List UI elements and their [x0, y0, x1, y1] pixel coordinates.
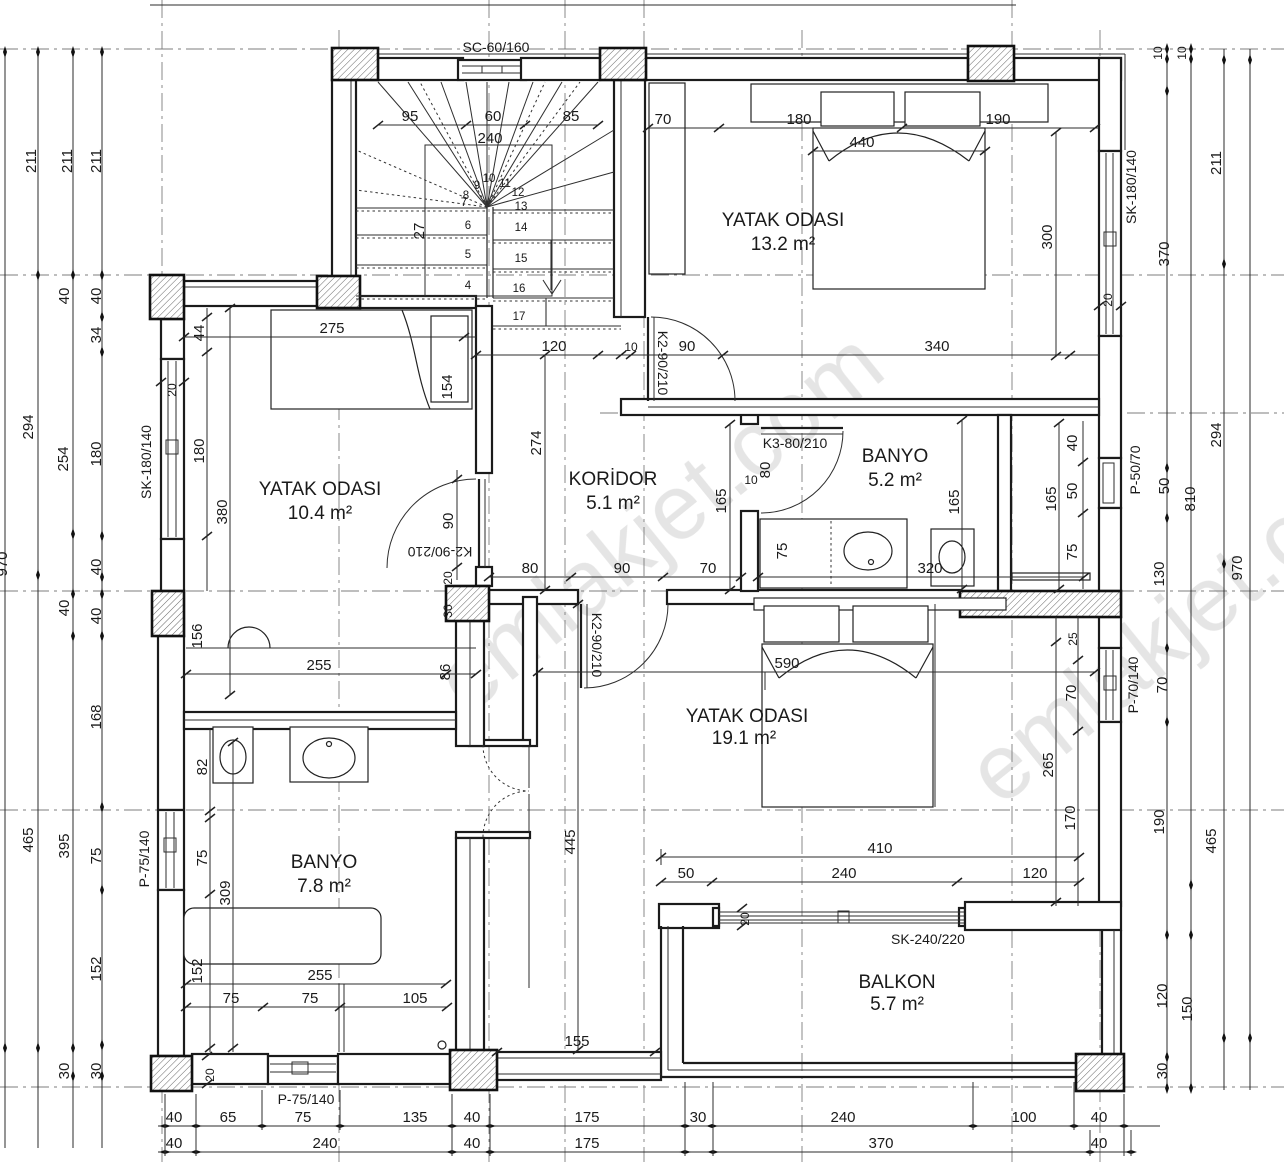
svg-text:15: 15 — [515, 253, 528, 265]
svg-text:40: 40 — [166, 1109, 183, 1126]
stairs dotted guide lines — [356, 82, 621, 329]
bathroom 7.8 toilet — [213, 727, 253, 783]
svg-text:9: 9 — [474, 180, 480, 192]
svg-text:K2-90/210: K2-90/210 — [589, 613, 605, 678]
svg-text:K2-90/210: K2-90/210 — [407, 544, 472, 560]
right dimension chain lines — [1165, 43, 1252, 1094]
column C1 top left of stairs — [332, 48, 378, 80]
bathroom 5.2 dimension 165 left — [957, 416, 967, 593]
bottom wall dim 20 — [202, 1052, 217, 1088]
svg-text:80: 80 — [757, 462, 774, 479]
bedroom 19.1 dimension 445 — [529, 600, 583, 1054]
label P-70/140 right — [1125, 656, 1141, 713]
balcony window dim 20 — [737, 904, 752, 930]
svg-text:44: 44 — [191, 325, 208, 342]
hall folding door dotted arcs — [483, 745, 529, 837]
svg-text:254: 254 — [55, 446, 72, 471]
svg-text:75: 75 — [1064, 544, 1081, 561]
door K2-90/210 koridor to bedroom 19.1 — [581, 604, 668, 688]
svg-text:BALKON: BALKON — [858, 972, 935, 993]
svg-text:465: 465 — [1203, 828, 1220, 853]
left wall bathroom 7.8 lower piece — [158, 890, 184, 1056]
svg-text:155: 155 — [564, 1033, 589, 1050]
svg-text:75: 75 — [88, 848, 105, 865]
svg-text:120: 120 — [1022, 865, 1047, 882]
svg-text:320: 320 — [917, 560, 942, 577]
bathroom 7.8 dimension 75 75 105 — [181, 1003, 452, 1011]
bottom dimension chain row 2 labels — [166, 1135, 1108, 1152]
bedroom 19.1 dimension 50 240 120 — [656, 878, 1084, 886]
room label bedroom 19.1 — [686, 706, 808, 749]
room label balcony — [858, 972, 935, 1015]
svg-text:90: 90 — [440, 513, 457, 530]
svg-text:170: 170 — [1062, 805, 1079, 830]
svg-text:30: 30 — [1154, 1063, 1171, 1080]
svg-text:180: 180 — [191, 438, 208, 463]
svg-text:120: 120 — [541, 338, 566, 355]
bathroom 7.8 bathtub — [184, 908, 381, 964]
top wall outer plaster line — [378, 54, 1125, 150]
window P-50/70 right — [1099, 458, 1121, 508]
label P-50/70 right — [1127, 445, 1143, 494]
bottom dimension chain row 1 labels — [166, 1109, 1108, 1126]
watermark emlakjet.com diagonal — [416, 311, 1284, 823]
svg-text:211: 211 — [23, 149, 40, 173]
stair block right wall / bedroom west wall — [614, 80, 645, 317]
svg-text:70: 70 — [1063, 685, 1080, 702]
svg-text:165: 165 — [713, 488, 730, 513]
svg-text:180: 180 — [786, 111, 811, 128]
svg-text:410: 410 — [867, 840, 892, 857]
svg-text:10: 10 — [483, 173, 496, 185]
bedroom 13.2 wardrobe west — [649, 83, 685, 274]
svg-text:30: 30 — [56, 1063, 73, 1080]
svg-text:100: 100 — [1011, 1109, 1036, 1126]
svg-text:211: 211 — [59, 149, 76, 173]
bedroom 19.1 dimension 410 — [656, 849, 1084, 865]
svg-text:165: 165 — [946, 489, 963, 514]
top wall segment right of SC window — [521, 58, 600, 80]
svg-text:380: 380 — [214, 499, 231, 524]
label P-75/140 bottom — [278, 1091, 335, 1107]
svg-text:90: 90 — [679, 338, 696, 355]
koridor south wall west piece — [489, 590, 578, 604]
svg-text:294: 294 — [1208, 422, 1225, 447]
svg-text:168: 168 — [88, 704, 105, 729]
svg-text:40: 40 — [166, 1135, 183, 1152]
bathroom 5.2 dimension 75 toilet — [774, 543, 791, 560]
bedroom 10.4 bottom dimension 255 86 — [181, 670, 481, 678]
bedroom 10.4 dimensions 44 180 — [202, 308, 212, 591]
svg-text:240: 240 — [830, 1109, 855, 1126]
svg-text:13: 13 — [515, 201, 528, 213]
bedroom 10.4 dimension 275 — [179, 333, 476, 341]
svg-text:370: 370 — [868, 1135, 893, 1152]
bathroom 7.8 shower partition — [339, 984, 344, 1052]
svg-text:255: 255 — [306, 657, 331, 674]
svg-text:40: 40 — [88, 608, 105, 625]
bedroom 13.2 dimension 300 — [1051, 128, 1061, 360]
svg-text:152: 152 — [88, 956, 105, 981]
svg-text:190: 190 — [1151, 809, 1168, 834]
svg-text:86: 86 — [437, 664, 454, 681]
label P-75/140 left — [136, 830, 152, 887]
svg-text:65: 65 — [220, 1109, 237, 1126]
bedroom 10.4 single bed — [271, 310, 472, 409]
room label bedroom 13.2 — [722, 210, 844, 255]
closet dimensions 40 50 75 — [1078, 421, 1088, 589]
svg-text:265: 265 — [1040, 752, 1057, 777]
bedroom 13.2 south wall — [621, 399, 1099, 415]
window SK-180/140 right — [1099, 151, 1121, 336]
room label bathroom 5.2 — [862, 446, 929, 491]
koridor bottom dimension 80 90 70 — [484, 573, 746, 581]
right wall between windows — [1099, 336, 1121, 458]
koridor south wall east piece — [667, 590, 960, 610]
svg-text:7.8 m²: 7.8 m² — [297, 876, 351, 897]
bathroom 5.2 toilet — [931, 529, 974, 586]
koridor west wall upper piece — [476, 306, 492, 473]
bedroom 19.1 dimension 590 — [533, 668, 1100, 676]
svg-text:240: 240 — [831, 865, 856, 882]
svg-text:465: 465 — [20, 827, 37, 852]
svg-text:40: 40 — [464, 1109, 481, 1126]
svg-text:75: 75 — [194, 850, 211, 867]
stairs dimension 27 — [411, 223, 428, 240]
bathroom 5.2 dimension 320 — [753, 573, 1089, 581]
bathroom 5.2 west wall lower piece — [741, 511, 758, 591]
svg-text:19.1 m²: 19.1 m² — [712, 728, 776, 749]
svg-text:95: 95 — [402, 108, 419, 125]
right wall piece below top corner — [1099, 58, 1121, 151]
svg-text:20: 20 — [203, 1068, 217, 1082]
svg-text:175: 175 — [574, 1109, 599, 1126]
bottom wall middle piece — [338, 1054, 450, 1084]
svg-text:445: 445 — [562, 829, 579, 854]
svg-text:K3-80/210: K3-80/210 — [763, 435, 828, 451]
bottom wall left piece — [192, 1054, 268, 1084]
door K3-80/210 bathroom 5.2 — [744, 428, 843, 513]
svg-text:10.4 m²: 10.4 m² — [288, 503, 352, 524]
svg-text:6: 6 — [465, 220, 471, 232]
svg-text:50: 50 — [1156, 478, 1173, 495]
svg-text:175: 175 — [574, 1135, 599, 1152]
label SK-180/140 left — [138, 425, 154, 499]
right dimension chain labels — [1151, 46, 1246, 1079]
column C7 center — [446, 586, 489, 621]
svg-text:211: 211 — [1208, 151, 1225, 175]
column C11 balcony bottom right — [1076, 1054, 1124, 1091]
svg-text:340: 340 — [924, 338, 949, 355]
bedroom 19.1 headboard — [754, 598, 1006, 610]
room label bedroom 10.4 — [259, 479, 381, 524]
svg-text:300: 300 — [1039, 224, 1056, 249]
closet dimension 165 right — [1054, 419, 1064, 593]
svg-text:5: 5 — [465, 249, 471, 261]
svg-text:40: 40 — [1091, 1109, 1108, 1126]
koridor dimension 274 — [540, 351, 550, 594]
left wall bathroom 7.8 upper piece — [158, 636, 184, 810]
svg-text:BANYO: BANYO — [862, 446, 929, 467]
bathroom 7.8 dimensions 82 75 152 — [205, 729, 215, 1052]
bedroom 19.1 double bed — [762, 606, 933, 807]
svg-text:K2-90/210: K2-90/210 — [655, 331, 671, 396]
column C4 left upper — [150, 275, 184, 319]
stairs center divider — [487, 207, 493, 298]
svg-text:40: 40 — [1064, 435, 1081, 452]
bottom dimension chain row 1 — [158, 1124, 1160, 1128]
svg-text:16: 16 — [513, 283, 526, 295]
svg-text:40: 40 — [88, 559, 105, 576]
svg-text:YATAK ODASI: YATAK ODASI — [686, 706, 808, 727]
svg-text:50: 50 — [678, 865, 695, 882]
stair block left wall — [332, 80, 356, 276]
svg-text:82: 82 — [194, 759, 211, 776]
top wall segment between columns C2 and C3 — [646, 58, 968, 80]
dimension 155 — [492, 1048, 660, 1056]
door stop circle — [438, 1041, 446, 1049]
svg-text:SK-180/140: SK-180/140 — [1123, 150, 1139, 224]
svg-text:P-75/140: P-75/140 — [278, 1091, 335, 1107]
balcony parapet — [661, 926, 1121, 1077]
svg-text:40: 40 — [88, 288, 105, 305]
bedroom 13.2 bed dimension 440 — [808, 147, 990, 155]
bathroom 7.8 dimension 309 — [228, 738, 238, 1052]
koridor dimension 165 east — [725, 420, 735, 594]
label SC-60/160 — [463, 39, 530, 55]
column C6 left middle — [152, 591, 184, 636]
left wall piece below column C4 — [161, 319, 184, 359]
svg-text:5.7 m²: 5.7 m² — [870, 994, 924, 1015]
svg-text:75: 75 — [774, 543, 791, 560]
bottom extension lines — [165, 1082, 1131, 1156]
svg-text:KORİDOR: KORİDOR — [569, 469, 658, 490]
svg-text:240: 240 — [477, 130, 502, 147]
door K2-90/210 bedroom 10.4 — [387, 470, 485, 618]
bedroom 19.1 south wall left piece — [659, 904, 719, 928]
svg-text:810: 810 — [1182, 486, 1199, 511]
top wall segment left of SC window — [378, 58, 463, 80]
bottom wall right of column C10 — [497, 1052, 661, 1080]
bottom dimension chain row 2 — [158, 1150, 1137, 1154]
bathroom 7.8 dimension 255 — [181, 980, 451, 988]
svg-text:11: 11 — [499, 178, 511, 190]
window SK-180/140 left — [161, 359, 184, 539]
window dim 20 right — [1094, 293, 1126, 310]
svg-text:5.2 m²: 5.2 m² — [868, 470, 922, 491]
svg-text:70: 70 — [1154, 677, 1171, 694]
svg-text:80: 80 — [522, 560, 539, 577]
bathroom 7.8 counter with sink — [290, 727, 368, 782]
wall below column C7 upper — [456, 621, 484, 746]
svg-text:135: 135 — [402, 1109, 427, 1126]
bedroom 10.4 dimension 380 — [225, 304, 235, 699]
hatched wall block right middle — [960, 591, 1121, 617]
svg-text:75: 75 — [223, 990, 240, 1007]
bathroom 5.2 west wall upper piece — [741, 413, 758, 424]
svg-text:60: 60 — [485, 108, 502, 125]
window P-75/140 left — [158, 810, 184, 890]
stairwell eye outline — [425, 145, 552, 296]
svg-text:30: 30 — [88, 1063, 105, 1080]
bedroom 10.4 bed dimension 154 — [439, 374, 456, 399]
svg-text:970: 970 — [1229, 555, 1246, 580]
svg-text:75: 75 — [295, 1109, 312, 1126]
svg-text:240: 240 — [312, 1135, 337, 1152]
wall below hall lower — [456, 838, 484, 1050]
svg-text:SK-180/140: SK-180/140 — [138, 425, 154, 499]
svg-text:10: 10 — [1175, 46, 1189, 60]
svg-text:255: 255 — [307, 967, 332, 984]
svg-text:370: 370 — [1156, 241, 1173, 266]
svg-text:5.1 m²: 5.1 m² — [586, 493, 640, 514]
top border dimension line — [150, 4, 1016, 6]
svg-text:211: 211 — [88, 149, 105, 173]
svg-text:70: 70 — [700, 560, 717, 577]
column C2 top middle — [600, 48, 646, 80]
left dimension chain labels — [0, 149, 105, 1079]
svg-text:85: 85 — [563, 108, 580, 125]
stairs tread numbers — [461, 173, 528, 323]
stairs dimension 240 — [477, 130, 502, 147]
svg-text:20: 20 — [441, 571, 455, 585]
svg-text:395: 395 — [56, 833, 73, 858]
bedroom 13.2 closet — [751, 84, 1048, 122]
window P-75/140 bottom — [268, 1056, 338, 1084]
right wall piece below hatched block — [1099, 617, 1121, 648]
svg-text:40: 40 — [464, 1135, 481, 1152]
svg-text:40: 40 — [1091, 1135, 1108, 1152]
svg-text:20: 20 — [1101, 293, 1115, 307]
svg-text:156: 156 — [189, 623, 206, 648]
svg-text:105: 105 — [402, 990, 427, 1007]
koridor and bedroom 13.2 dimension 120 10 90 340 — [471, 351, 1099, 359]
svg-text:10: 10 — [744, 473, 758, 487]
svg-text:40: 40 — [56, 600, 73, 617]
room label koridor — [569, 469, 658, 514]
svg-text:30: 30 — [690, 1109, 707, 1126]
svg-text:190: 190 — [985, 111, 1010, 128]
vertical axis grid lines — [162, 0, 1100, 1162]
svg-text:970: 970 — [0, 551, 11, 576]
svg-text:P-50/70: P-50/70 — [1127, 445, 1143, 494]
hall step line upper — [469, 740, 530, 788]
svg-text:180: 180 — [88, 441, 105, 466]
bedroom 19.1 dimensions 25 265 — [1051, 617, 1061, 906]
window SC-60/160 top — [458, 60, 526, 80]
bedroom 10.4 closet line with semicircle arc — [186, 627, 476, 648]
svg-text:14: 14 — [515, 222, 528, 234]
svg-text:BANYO: BANYO — [291, 852, 358, 873]
svg-text:17: 17 — [513, 311, 526, 323]
svg-text:4: 4 — [465, 280, 472, 292]
svg-text:90: 90 — [614, 560, 631, 577]
svg-text:P-70/140: P-70/140 — [1125, 656, 1141, 713]
svg-text:13.2 m²: 13.2 m² — [751, 234, 815, 255]
bedroom 19.1 dimensions 70 170 — [1073, 617, 1083, 906]
door K2-90/210 bedroom 13.2 — [648, 317, 735, 401]
column C9 bottom left — [151, 1056, 192, 1091]
svg-text:440: 440 — [849, 134, 874, 151]
bedroom 13.2 top dimension 70 180 190 — [643, 124, 1100, 132]
window SK-240/220 balcony sliding door — [713, 908, 965, 926]
svg-text:8: 8 — [463, 190, 469, 202]
svg-text:40: 40 — [56, 288, 73, 305]
room label bathroom 7.8 — [291, 852, 358, 897]
svg-text:130: 130 — [1151, 561, 1168, 586]
svg-text:10: 10 — [624, 340, 638, 354]
svg-text:34: 34 — [88, 327, 105, 344]
stairs exit arrow — [543, 240, 561, 326]
svg-text:275: 275 — [319, 320, 344, 337]
hall step line lower — [456, 794, 530, 838]
left wall piece below window — [161, 539, 184, 591]
bathroom 5.2 closet shelf — [1012, 573, 1090, 580]
svg-text:20: 20 — [165, 383, 179, 397]
svg-text:294: 294 — [20, 414, 37, 439]
svg-text:10: 10 — [1151, 46, 1165, 60]
svg-text:150: 150 — [1179, 996, 1196, 1021]
svg-text:27: 27 — [411, 223, 428, 240]
svg-text:590: 590 — [774, 655, 799, 672]
svg-text:152: 152 — [189, 958, 206, 983]
stairs treads right flight — [493, 210, 621, 326]
column C3 top right — [968, 46, 1014, 81]
bedroom 19.1 south wall right piece — [965, 902, 1121, 930]
svg-text:165: 165 — [1043, 486, 1060, 511]
stairs treads left flight — [356, 208, 487, 296]
koridor west wall lower piece — [476, 567, 492, 586]
svg-text:YATAK ODASI: YATAK ODASI — [722, 210, 844, 231]
left dimension chain lines — [3, 46, 104, 1148]
svg-text:274: 274 — [528, 430, 545, 455]
svg-text:120: 120 — [1154, 983, 1171, 1008]
svg-text:75: 75 — [302, 990, 319, 1007]
stairs winder fan lines — [378, 82, 614, 207]
svg-text:70: 70 — [655, 111, 672, 128]
bathroom 5.2 east closet wall — [998, 415, 1011, 591]
bathroom 5.2 counter with sink — [760, 519, 907, 588]
bathroom 7.8 north wall — [184, 712, 456, 729]
svg-text:50: 50 — [1064, 483, 1081, 500]
right wall piece above hatched block — [1099, 508, 1121, 591]
svg-text:YATAK ODASI: YATAK ODASI — [259, 479, 381, 500]
column C5 stair bottom left — [317, 276, 360, 308]
bedroom 10.4 north wall — [184, 281, 317, 306]
label SK-240/220 — [891, 931, 965, 947]
column C10 bottom center — [450, 1050, 497, 1090]
right wall piece bedroom 19.1 east — [1099, 722, 1121, 906]
svg-text:30: 30 — [441, 604, 455, 618]
bedroom 13.2 double bed — [813, 92, 985, 289]
svg-text:SC-60/160: SC-60/160 — [463, 39, 530, 55]
stairs dimension 95 60 85 — [373, 121, 603, 129]
label SK-180/140 right — [1123, 150, 1139, 224]
top wall segment right of column C3 — [1014, 58, 1121, 80]
svg-text:P-75/140: P-75/140 — [136, 830, 152, 887]
extension line bed19 — [765, 604, 935, 807]
svg-text:SK-240/220: SK-240/220 — [891, 931, 965, 947]
svg-text:12: 12 — [512, 187, 525, 199]
wall between stairs and bedroom 10.4 — [360, 296, 476, 308]
bedroom 19.1 west wall upper — [523, 597, 537, 746]
window dim 20 left — [156, 378, 189, 397]
svg-text:309: 309 — [217, 880, 234, 905]
window P-70/140 right — [1099, 648, 1121, 722]
svg-text:154: 154 — [439, 374, 456, 399]
